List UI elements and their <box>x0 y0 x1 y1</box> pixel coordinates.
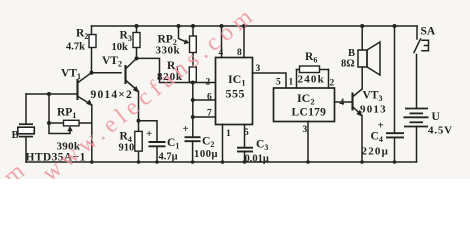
wire IC1 pin4 <box>221 26 223 58</box>
wire IC1 pin6 <box>193 99 216 101</box>
potentiometer RP2 body <box>190 36 197 53</box>
wire C1 branch <box>139 121 158 142</box>
transistor VT3 base bar <box>351 93 353 111</box>
wire VT2 emitter column <box>138 92 140 121</box>
wire VT2 base <box>92 72 122 74</box>
node pin6 column <box>191 98 195 102</box>
svg-text:VT2: VT2 <box>102 55 122 69</box>
wire IC1 pin1 ground <box>222 125 224 163</box>
svg-text:C2: C2 <box>202 136 214 150</box>
node pin2 column <box>191 81 195 85</box>
wire R4 bottom lead <box>138 151 140 162</box>
node B RP1 top <box>47 92 51 96</box>
wire VT1 base from B <box>26 93 78 95</box>
svg-text:+: + <box>378 120 384 132</box>
battery U cells <box>404 109 429 127</box>
node rail pin4 <box>220 24 224 28</box>
svg-text:2: 2 <box>330 79 335 89</box>
svg-text:R2: R2 <box>76 28 88 42</box>
piezo B plates and body <box>19 124 33 136</box>
wire RP1 left drop <box>48 94 50 123</box>
svg-text:C4: C4 <box>371 131 383 145</box>
wire speaker top lead <box>361 26 363 50</box>
node ground C4 <box>393 160 397 164</box>
arrow VT1 emitter <box>86 99 92 106</box>
svg-text:5: 5 <box>276 78 281 88</box>
wire VT3 emitter column <box>361 116 363 163</box>
svg-text:B: B <box>12 129 20 141</box>
potentiometer RP1 body <box>64 120 80 126</box>
svg-text:1: 1 <box>226 129 231 139</box>
capacitor C4 plates <box>386 133 404 137</box>
svg-text:240k: 240k <box>298 74 325 86</box>
svg-text:3: 3 <box>303 125 308 135</box>
wire RP1 wiper loop <box>49 123 70 134</box>
svg-text:100μ: 100μ <box>194 149 218 160</box>
wire IC1 pin3 to IC2 pin5 <box>253 73 287 88</box>
transistor VT1 collector <box>78 73 92 83</box>
wire RP1 left terminal <box>49 122 64 124</box>
wire R4 top lead <box>138 121 140 132</box>
svg-text:+: + <box>146 128 152 140</box>
wire C1 bottom lead <box>156 147 158 163</box>
svg-text:+: + <box>183 123 189 135</box>
node ground IC2 pin3 <box>306 160 310 164</box>
svg-text:4.5V: 4.5V <box>428 125 453 137</box>
capacitor C3 plates <box>237 148 253 152</box>
wire B piezo bottom lead <box>25 138 27 163</box>
transistor VT3 collector <box>353 89 362 97</box>
wire R6 right stub pin2 <box>328 70 330 89</box>
wire R3 column top <box>136 26 138 33</box>
wire RP2 top lead <box>192 26 194 36</box>
wire bottom ground rail <box>26 161 417 163</box>
node VT2 emitter R4 <box>137 119 141 123</box>
svg-text:4.7k: 4.7k <box>66 42 85 53</box>
transistor VT2 emitter <box>126 81 139 92</box>
wire C4 top lead <box>394 26 396 133</box>
capacitor C1 plates <box>149 142 166 146</box>
resistor R6 body <box>300 66 320 73</box>
arrow RP2 wiper <box>184 39 190 44</box>
wire R3 column bottom <box>136 48 138 59</box>
wire R6 left stub pin1 <box>296 70 298 89</box>
node pin7 column <box>191 115 195 119</box>
svg-text:10k: 10k <box>112 42 129 53</box>
svg-text:4.7μ: 4.7μ <box>159 152 178 163</box>
node VT1 collector <box>90 71 94 75</box>
node ground VT1 <box>90 160 94 164</box>
wire C4 bottom lead <box>394 138 396 163</box>
svg-text:2: 2 <box>206 78 211 88</box>
node rail speaker <box>360 24 364 28</box>
svg-text:6: 6 <box>207 93 212 103</box>
svg-text:8: 8 <box>237 48 242 58</box>
svg-text:7: 7 <box>207 109 212 119</box>
node ground VT3 <box>360 160 364 164</box>
svg-text:220μ: 220μ <box>362 146 390 158</box>
svg-text:R3: R3 <box>120 30 132 44</box>
svg-text:IC2: IC2 <box>297 91 315 107</box>
svg-text:1: 1 <box>289 78 294 88</box>
svg-text:555: 555 <box>226 87 246 101</box>
speaker B cone <box>367 42 380 75</box>
svg-text:0.01μ: 0.01μ <box>245 154 269 165</box>
node rail C4 <box>393 24 397 28</box>
svg-text:LC179: LC179 <box>292 107 327 119</box>
wire RP2-R1 link <box>192 53 194 68</box>
node rail RP2 wiper <box>177 24 181 28</box>
wire IC1 pin8 <box>243 26 245 58</box>
op-amp IC2 LC179 box <box>274 88 335 122</box>
wire RP2 wiper drop <box>179 26 188 43</box>
node ground R4 <box>137 160 141 164</box>
capacitor C2 plates <box>185 137 201 141</box>
node rail RP2 <box>191 24 195 28</box>
transistor VT2 collector <box>126 58 137 68</box>
node ground C1 <box>155 160 159 164</box>
switch SA contact <box>422 40 429 51</box>
svg-text:RP1: RP1 <box>57 107 76 121</box>
resistor R4 body <box>135 131 142 151</box>
svg-text:5: 5 <box>244 128 249 138</box>
svg-text:U: U <box>432 111 441 123</box>
resistor R2 body <box>89 35 96 48</box>
wire VT2 collector to IC1 pin2 <box>137 58 216 82</box>
op-amp IC1 555 box <box>216 58 253 125</box>
arrow RP1 wiper <box>67 126 72 131</box>
svg-text:VT3: VT3 <box>363 90 383 104</box>
wire B piezo top lead <box>25 94 27 124</box>
svg-text:9013: 9013 <box>360 104 387 116</box>
wire RP1 right terminal <box>79 122 92 124</box>
resistor R3 body <box>133 33 140 48</box>
node VT2 collector R3 <box>135 56 139 60</box>
wire IC1 pin7 <box>193 116 216 118</box>
arrow VT2 emitter <box>133 86 139 93</box>
speaker B frame <box>358 50 367 67</box>
svg-text:IC1: IC1 <box>228 72 246 88</box>
svg-text:C1: C1 <box>167 137 179 151</box>
resistor R1 body <box>189 67 196 82</box>
wire VT1 emitter column <box>91 105 93 162</box>
svg-text:910: 910 <box>119 143 135 154</box>
switch SA blade <box>414 39 421 53</box>
svg-text:3: 3 <box>256 64 261 74</box>
svg-text:VT1: VT1 <box>61 68 81 82</box>
wire IC1 pin5 to C3 <box>244 125 246 148</box>
wire C2 bottom lead <box>192 141 194 162</box>
wire SA top stub <box>416 26 418 39</box>
wire speaker to VT3 collector <box>361 67 363 89</box>
wire R2 column top <box>91 26 93 35</box>
wire battery bottom stub <box>416 127 418 163</box>
transistor VT2 base bar <box>124 65 126 84</box>
wire SA to battery <box>416 55 418 109</box>
node rail R3 <box>135 24 139 28</box>
wire C3 bottom lead <box>244 152 246 163</box>
wire IC2 pin3 ground <box>307 122 309 163</box>
transistor VT3 emitter <box>353 107 362 116</box>
transistor VT1 emitter <box>78 97 92 106</box>
arrow VT3 emitter <box>356 110 362 117</box>
transistor VT1 base bar <box>76 79 78 100</box>
node RP1 left <box>47 121 51 125</box>
svg-text:4: 4 <box>340 98 345 108</box>
node ground C2 <box>191 160 195 164</box>
node ground C3 <box>243 160 247 164</box>
node rail pin8 <box>242 24 246 28</box>
svg-text:R6: R6 <box>305 51 317 65</box>
wire R1 bottom column to C2 <box>192 82 194 137</box>
wire R2 column bottom to node <box>91 48 93 73</box>
wire R6 top link <box>297 69 329 71</box>
wire top power rail <box>92 25 418 27</box>
svg-text:C3: C3 <box>256 139 268 153</box>
svg-text:SA: SA <box>421 26 436 38</box>
node ground pin1 <box>221 160 225 164</box>
svg-text:8Ω: 8Ω <box>341 58 355 69</box>
wire IC2 pin4 to VT3 base <box>335 101 353 103</box>
